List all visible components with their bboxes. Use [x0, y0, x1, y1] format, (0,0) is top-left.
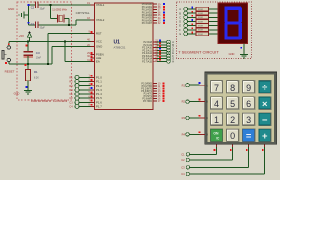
- pin P3.3/INT1 (13): [141, 90, 164, 93]
- pin P1.5 (6): [88, 95, 102, 100]
- pin P3.7/RD (17): [143, 100, 164, 103]
- pin P2.1/A9 (22) with terminal B: [143, 42, 174, 47]
- pin PSEN (29): [87, 52, 103, 57]
- svg-text:XTAL2: XTAL2: [96, 18, 105, 22]
- key 7: [210, 80, 223, 94]
- svg-text:GND: GND: [8, 7, 14, 11]
- svg-text:Minimum Circuit: Minimum Circuit: [31, 99, 67, 103]
- pin P1.7 (8): [88, 104, 102, 109]
- pin P3.0/RXD (10): [141, 83, 164, 86]
- terminal R3 to keypad row C: [182, 115, 209, 120]
- pin P0.7/AD7 (32): [142, 22, 165, 25]
- svg-text:=: =: [246, 130, 252, 141]
- pin P1.1 (2): [88, 79, 102, 84]
- svg-text:C3: C3: [181, 165, 185, 169]
- key 9: [242, 80, 255, 94]
- terminal B with resistor to display: [179, 11, 218, 15]
- pin P3.2/INT0 (12): [141, 88, 164, 91]
- svg-text:330R: 330R: [198, 17, 203, 19]
- pin P1.3 (4): [88, 87, 102, 92]
- svg-text:C2: C2: [181, 158, 185, 162]
- svg-text:7 SEGMENT CIRCUIT: 7 SEGMENT CIRCUIT: [178, 51, 219, 55]
- terminal C4 to keypad column: [181, 144, 264, 176]
- pin P0.5/AD5 (34): [142, 17, 165, 20]
- wire C3 to R1 node: [27, 56, 29, 69]
- key =: [242, 129, 255, 143]
- svg-text:CRYSTAL: CRYSTAL: [76, 11, 90, 15]
- svg-text:33pF: 33pF: [40, 8, 46, 10]
- power +5V: [19, 32, 32, 42]
- pin P2.2/A10 (23) with terminal C: [142, 45, 174, 50]
- pin P3.1/TXD (11): [142, 85, 165, 88]
- svg-text:330R: 330R: [198, 30, 203, 32]
- 7-segment display (showing 8): [218, 3, 248, 44]
- terminal E with resistor to display: [179, 23, 218, 27]
- key 0: [226, 129, 239, 143]
- pin P3.6/WR (16): [142, 98, 164, 101]
- wire EA pin to +5V: [65, 42, 91, 62]
- svg-text:330R: 330R: [198, 9, 203, 11]
- key 6: [242, 96, 255, 110]
- svg-text:10uF: 10uF: [36, 58, 42, 60]
- capacitor C2 33pF: [31, 2, 46, 11]
- svg-text:+5V: +5V: [19, 34, 25, 38]
- svg-text:11.0592 MHz: 11.0592 MHz: [52, 8, 67, 11]
- wire GND pin net: [52, 47, 91, 64]
- terminal C2 to P1.5: [69, 96, 90, 100]
- pin XTAL1 (19): [87, 2, 105, 7]
- resistor R1 8.2K: [26, 69, 40, 80]
- pin P0.4/AD4 (35): [142, 14, 165, 17]
- capacitor C3 10uF: [23, 51, 41, 60]
- svg-text:H: H: [172, 60, 174, 63]
- capacitor C1 33pF: [31, 22, 46, 30]
- pin P1.2 (3): [88, 83, 102, 88]
- svg-text:÷: ÷: [262, 82, 267, 93]
- terminal F with resistor to display: [179, 27, 218, 31]
- ground (crystal caps): [8, 7, 29, 18]
- svg-text:RESET: RESET: [5, 70, 15, 74]
- terminal A with resistor to display: [179, 7, 218, 11]
- pin XTAL2 (18): [87, 17, 105, 22]
- key 1: [210, 113, 223, 127]
- wire rail to C3: [27, 42, 29, 51]
- wire display common to ground: [243, 44, 245, 55]
- segment g: [225, 21, 241, 24]
- pin P2.3/A11 (24) with terminal D: [142, 48, 174, 53]
- pin ALE (30): [87, 55, 101, 60]
- op: microcontroller U1 AT89C51: [95, 3, 154, 110]
- pin P2.6/A14 (27) with terminal G: [142, 56, 174, 61]
- segment d: [225, 36, 242, 39]
- svg-text:/C: /C: [216, 136, 220, 140]
- key 3: [242, 113, 255, 127]
- keypad body: [205, 72, 277, 144]
- key −: [258, 113, 271, 127]
- svg-text:AT89C51: AT89C51: [114, 46, 126, 50]
- key 5: [226, 96, 239, 110]
- ground (7seg): [229, 52, 249, 58]
- svg-text:C1: C1: [31, 22, 35, 26]
- wire XTAL1 net (C2 to pin 19): [29, 5, 91, 25]
- segment a: [225, 7, 242, 10]
- key 4: [210, 96, 223, 110]
- wire crystal right leg: [64, 19, 70, 27]
- svg-text:330R: 330R: [198, 21, 203, 23]
- terminal D with resistor to display: [179, 19, 218, 23]
- svg-text:−: −: [262, 114, 268, 125]
- key ×: [258, 96, 271, 110]
- pin P3.5/T1 (15): [144, 95, 165, 98]
- svg-text:330R: 330R: [198, 34, 203, 36]
- 7 segment circuit dotted box: [177, 2, 252, 59]
- svg-text:R3: R3: [182, 116, 186, 120]
- svg-text:C3: C3: [36, 51, 40, 55]
- svg-text:4: 4: [214, 99, 219, 109]
- terminal R1 to P1.0: [69, 75, 90, 79]
- svg-text:G: G: [179, 33, 181, 36]
- wire crystal left leg: [50, 4, 58, 19]
- terminal C2 to keypad column: [181, 144, 232, 162]
- pin RST (9): [88, 31, 101, 36]
- wire R1 to ground: [27, 81, 29, 91]
- terminal R2 to P1.1: [69, 79, 90, 83]
- wire +5V rail to VCC: [9, 41, 95, 43]
- svg-text:0: 0: [230, 131, 235, 141]
- svg-text:ON: ON: [213, 132, 219, 136]
- node dots on gnd riser: [28, 4, 30, 6]
- svg-text:8: 8: [230, 83, 235, 93]
- pin P0.0/AD0 (39): [142, 3, 165, 6]
- svg-text:330R: 330R: [198, 13, 203, 15]
- pin P3.4/T0 (14): [144, 93, 165, 96]
- pin P0.3/AD3 (36): [142, 11, 165, 14]
- pin P1.6 (7): [88, 100, 102, 105]
- terminal R1 to keypad row A: [182, 82, 209, 87]
- pin P0.6/AD6 (33): [142, 19, 165, 22]
- pin GND (20): [87, 44, 102, 49]
- svg-text:RST: RST: [96, 32, 102, 36]
- svg-text:P3.7/RD: P3.7/RD: [143, 100, 152, 103]
- terminal C1 to P1.4: [69, 92, 90, 96]
- svg-text:5: 5: [230, 99, 235, 109]
- svg-text:2: 2: [230, 115, 235, 125]
- svg-text:EA: EA: [96, 60, 100, 64]
- svg-text:R2: R2: [182, 100, 186, 104]
- key +: [258, 129, 271, 143]
- segment f: [224, 8, 227, 23]
- pin P1.4 (5): [88, 91, 102, 96]
- pin P2.5/A13 (26) with terminal F: [142, 53, 174, 58]
- svg-text:330R: 330R: [198, 26, 203, 28]
- svg-text:D: D: [206, 134, 208, 137]
- pin P0.1/AD1 (38): [142, 6, 165, 9]
- svg-text:R1: R1: [182, 83, 186, 87]
- pin P2.7/A15 (28) with terminal H: [142, 59, 174, 64]
- svg-text:P1.7: P1.7: [96, 105, 102, 109]
- push button RESET: [2, 46, 15, 74]
- ground (below R1): [14, 91, 33, 96]
- segment b: [239, 8, 242, 23]
- svg-text:XTAL1: XTAL1: [96, 3, 105, 7]
- pin P0.2/AD2 (37): [142, 9, 165, 12]
- terminal C3 to P1.6: [69, 100, 90, 104]
- terminal C4 to P1.7: [69, 104, 90, 108]
- svg-text:U1: U1: [114, 39, 121, 45]
- svg-text:C: C: [179, 16, 181, 19]
- pin P1.0 (1): [88, 75, 102, 80]
- terminal C3 to keypad column: [181, 144, 248, 169]
- svg-text:GND: GND: [96, 45, 102, 49]
- wire button top to +5V rail: [8, 42, 10, 46]
- state dots near button: [8, 43, 10, 45]
- svg-text:GND: GND: [229, 52, 235, 56]
- svg-text:6: 6: [246, 99, 251, 109]
- terminal C1 to keypad column: [181, 144, 216, 156]
- segment e: [224, 23, 227, 39]
- svg-text:VCC: VCC: [96, 40, 102, 44]
- svg-text:7: 7: [214, 83, 219, 93]
- pin P2.4/A12 (25) with terminal E: [142, 51, 174, 56]
- key ON/C: [210, 129, 223, 143]
- svg-text:9: 9: [246, 83, 251, 93]
- terminal R3 to P1.2: [69, 84, 90, 88]
- key 8: [226, 80, 239, 94]
- svg-text:GND: GND: [14, 92, 20, 96]
- svg-text:C4: C4: [181, 172, 185, 176]
- segment c: [239, 23, 242, 39]
- minimum circuit dashed box: [17, 2, 72, 100]
- svg-text:+: +: [262, 130, 268, 141]
- svg-text:D: D: [179, 21, 181, 24]
- wire RST net: [47, 34, 90, 65]
- svg-text:1: 1: [214, 115, 219, 125]
- terminal R4 to keypad row D: [182, 131, 209, 136]
- terminal G with resistor to display: [179, 32, 218, 36]
- svg-text:C: C: [206, 117, 208, 120]
- svg-text:8.2K: 8.2K: [34, 77, 39, 79]
- svg-text:×: ×: [262, 98, 268, 109]
- pin EA (31): [87, 59, 100, 64]
- svg-text:P2.7/A15: P2.7/A15: [142, 60, 153, 63]
- svg-text:C1: C1: [181, 152, 185, 156]
- svg-text:C2: C2: [31, 6, 35, 10]
- terminal R2 to keypad row B: [182, 99, 209, 104]
- svg-text:33pF: 33pF: [40, 27, 46, 29]
- pin VCC (40): [87, 39, 102, 44]
- wire button bottom to RST node: [9, 62, 52, 65]
- svg-text:P0.7/AD7: P0.7/AD7: [142, 22, 153, 25]
- svg-text:R4: R4: [182, 133, 186, 137]
- terminal R4 to P1.3: [69, 88, 90, 92]
- key ÷: [258, 80, 271, 94]
- wire XTAL2 net (C1 to pin 18): [29, 20, 91, 25]
- key 2: [226, 113, 239, 127]
- svg-text:R1: R1: [34, 70, 38, 74]
- crystal X1 11.0592 MHz: [52, 8, 90, 22]
- pin P2.0/A8 (21) with terminal A: [143, 40, 174, 45]
- svg-text:3: 3: [246, 115, 251, 125]
- terminal C with resistor to display: [179, 15, 218, 19]
